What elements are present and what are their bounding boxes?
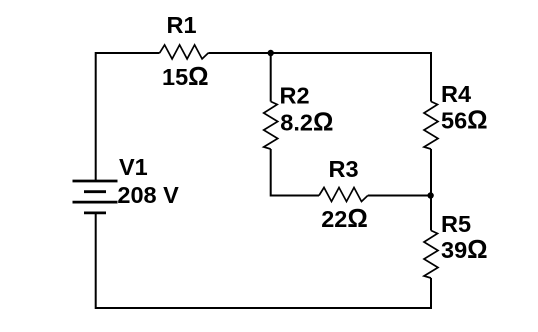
svg-text:V1: V1 (119, 154, 148, 180)
wire R2 branch top (270, 53, 272, 102)
svg-text:208 V: 208 V (117, 182, 179, 208)
resistor R1 (160, 45, 209, 59)
resistor R5 (424, 231, 438, 279)
resistor R4 (424, 102, 438, 150)
resistor R3 (319, 188, 368, 202)
svg-text:39Ω: 39Ω (441, 236, 488, 264)
wire R4 to node B (430, 149, 432, 231)
svg-text:R5: R5 (441, 211, 471, 237)
svg-text:R4: R4 (441, 81, 471, 107)
svg-text:R1: R1 (166, 12, 196, 38)
svg-text:22Ω: 22Ω (321, 205, 368, 233)
wire top right segment (208, 53, 431, 102)
svg-text:56Ω: 56Ω (441, 107, 488, 135)
svg-text:R2: R2 (280, 82, 310, 108)
svg-text:R3: R3 (328, 156, 358, 182)
svg-text:8.2Ω: 8.2Ω (280, 109, 333, 137)
node junction B (R3/R4/R5) (427, 192, 433, 198)
wire left branch: top-left corner (96, 53, 160, 181)
resistor R2 (264, 102, 278, 150)
node junction A (top of R2 branch) (268, 50, 274, 56)
wire bottom loop (96, 213, 431, 308)
battery V1 (73, 181, 118, 213)
wire R2 to R3 corner (271, 149, 319, 196)
wire R3 to node B (368, 195, 431, 197)
svg-text:15Ω: 15Ω (162, 63, 209, 91)
